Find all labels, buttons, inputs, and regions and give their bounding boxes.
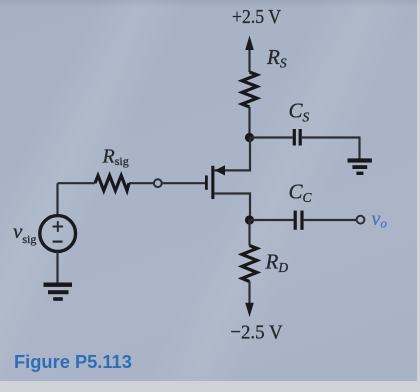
resistor RD label <box>265 250 289 276</box>
node vo output terminal (open circle) <box>357 216 365 224</box>
transistor Q1 (PMOS): source arrow <box>215 165 225 175</box>
wire: gate lead from open node to gate bar <box>162 182 205 184</box>
svg-text:vsig: vsig <box>13 219 36 246</box>
wire: source node to CS left plate <box>250 136 293 138</box>
resistor Rsig <box>95 176 129 191</box>
wire: RS bottom to source node <box>248 107 250 138</box>
vsig label <box>13 219 36 246</box>
resistor RS value label <box>266 45 287 71</box>
capacitor CS label <box>289 99 310 125</box>
svg-text:−2.5 V: −2.5 V <box>230 322 283 344</box>
wire: vsig bottom to ground <box>56 252 58 284</box>
svg-text:RD: RD <box>265 250 289 276</box>
figure caption <box>14 351 132 373</box>
svg-text:+2.5 V: +2.5 V <box>232 6 281 28</box>
capacitor CS <box>294 129 300 146</box>
vo label <box>372 208 388 231</box>
node -2.5 V supply label <box>230 322 283 344</box>
wire: CS right plate to ground drop <box>302 138 360 159</box>
resistor RD <box>242 246 257 282</box>
node D (drain node junction dot) <box>245 215 254 224</box>
svg-text:CS: CS <box>289 99 310 125</box>
wire: transistor drain lead to drain node <box>215 194 251 221</box>
svg-text:RS: RS <box>266 45 287 71</box>
svg-text:Rsig: Rsig <box>102 146 129 169</box>
wire: Rsig right end to open node <box>129 182 154 184</box>
transistor Q1 (PMOS): channel bar <box>211 166 214 199</box>
wire: drain node to CC left plate <box>250 219 294 221</box>
ground (right of CS) <box>348 158 372 175</box>
transistor Q1 (PMOS): gate bar <box>205 175 208 189</box>
capacitor CC label <box>289 180 313 206</box>
resistor Rsig label <box>102 146 129 169</box>
wire: source node down to transistor source lead <box>215 138 251 171</box>
node +2.5 V supply label <box>232 6 281 28</box>
wire: supply arrow up on +2.5V rail <box>245 36 254 73</box>
node S (source node junction dot) <box>245 133 254 142</box>
svg-text:CC: CC <box>289 180 313 206</box>
wire: CC right plate to output terminal <box>304 219 357 221</box>
svg-text:vo: vo <box>372 208 388 231</box>
wire: vsig top to Rsig left end <box>58 183 96 215</box>
wire: drain node down to RD <box>248 220 250 246</box>
ground (below vsig) <box>44 283 73 301</box>
capacitor CC <box>295 211 302 230</box>
node between Rsig and gate (open circle) <box>154 179 162 187</box>
wire: RD bottom with arrow to -2.5V <box>245 282 254 318</box>
source vsig (circle with +/-) <box>40 216 76 252</box>
resistor RS <box>242 72 257 107</box>
